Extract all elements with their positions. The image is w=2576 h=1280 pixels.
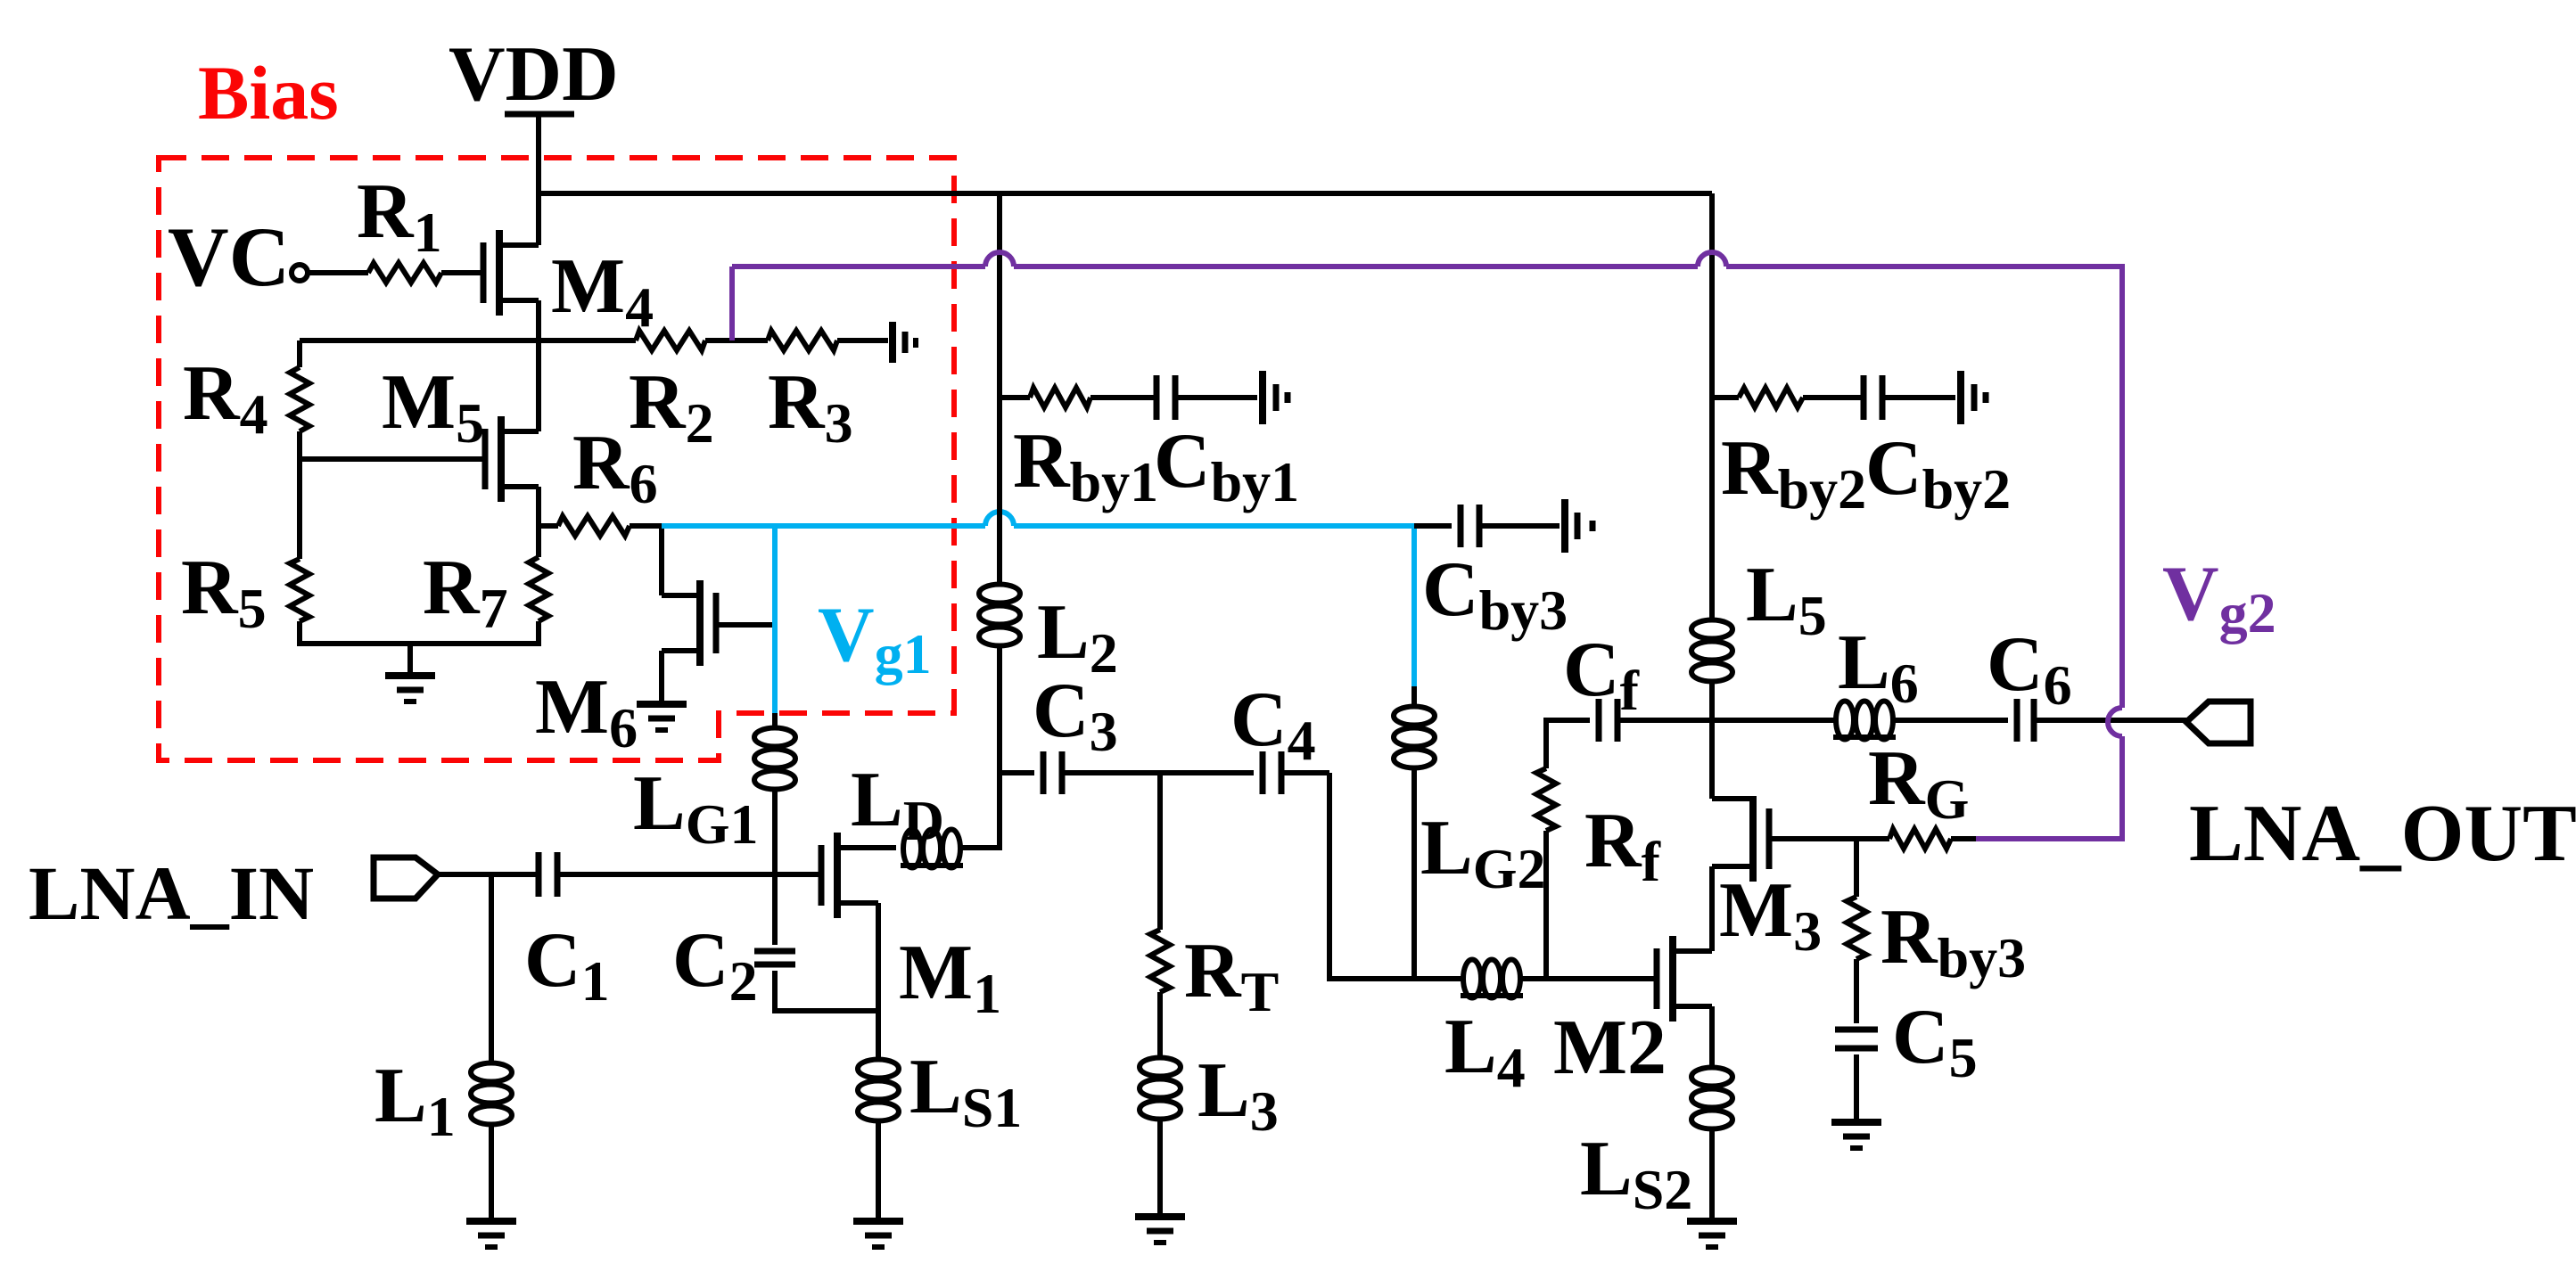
wire R7 top <box>536 526 541 557</box>
capacitor Cf <box>1599 699 1617 742</box>
label C2 <box>672 917 758 1013</box>
label Cf <box>1563 627 1640 722</box>
svg-text:Bias: Bias <box>198 50 339 135</box>
ground LS2 <box>1687 1221 1737 1247</box>
capacitor C5 <box>1835 1030 1878 1048</box>
resistor R4 <box>290 367 309 431</box>
ground bias <box>385 676 435 702</box>
wire LS2 to ground <box>1709 1129 1715 1219</box>
wire center column top <box>997 193 1002 583</box>
resistor R1 <box>368 263 441 283</box>
wire M5 drain up <box>536 341 541 431</box>
label L2 <box>1037 589 1118 685</box>
svg-text:M2: M2 <box>1553 1005 1667 1091</box>
label Rby3 <box>1881 894 2026 989</box>
capacitor C3 <box>1000 751 1160 794</box>
wire R5 column <box>297 459 302 559</box>
ground sideways Cby3 <box>1565 499 1593 553</box>
label LNA_OUT <box>2189 788 2576 878</box>
wire Cby3 to ground <box>1479 523 1560 529</box>
inductor L4 <box>1461 960 1523 998</box>
label L5 <box>1746 552 1827 647</box>
label LG1 <box>633 760 758 856</box>
VDD power symbol <box>505 114 574 193</box>
terminal LNA_IN <box>374 857 438 898</box>
label C1 <box>524 917 610 1013</box>
transistor M4 <box>483 230 539 316</box>
label C5 <box>1892 994 1978 1089</box>
label LG2 <box>1420 805 1545 900</box>
wire C6 to output terminal <box>2034 718 2186 723</box>
wire L5 to output node <box>1709 682 1715 720</box>
wire L2 to C3 node <box>997 646 1002 773</box>
ground LS1 <box>853 1221 903 1247</box>
wire L1 branch <box>489 874 494 1061</box>
label M1 <box>899 930 1001 1025</box>
resistor R2 <box>636 331 705 350</box>
inductor L3 <box>1140 1058 1181 1120</box>
label R3 <box>768 359 853 455</box>
ground C5 <box>1831 1122 1881 1148</box>
wire L6 to C6 <box>1893 718 2008 723</box>
wire L3 to ground <box>1157 1120 1163 1215</box>
wire RT to L3 <box>1157 992 1163 1055</box>
svg-text:LNA_IN: LNA_IN <box>29 850 314 936</box>
transistor M2 <box>1657 936 1712 1022</box>
net Vg2 purple <box>732 252 2122 839</box>
wire Rby1 lead <box>1000 395 1030 400</box>
label C3 <box>1033 668 1118 763</box>
resistor RG <box>1889 829 1951 849</box>
inductor LS2 <box>1691 1068 1732 1129</box>
wire M1 source to LS1 <box>876 903 881 1057</box>
label Bias <box>198 50 339 135</box>
wire R4 top <box>297 341 302 367</box>
wire L4 to M2 gate <box>1520 976 1657 981</box>
node VC terminal <box>292 265 308 281</box>
transistor M6 <box>662 580 716 702</box>
inductor LG1 <box>754 713 795 874</box>
wire LD to column <box>960 773 1000 848</box>
wire node row y382 <box>300 338 636 343</box>
capacitor C2 <box>754 874 878 1011</box>
label LNA_IN <box>29 850 314 936</box>
wire C4 corner down to L4 row <box>1329 773 1463 979</box>
resistor R3 <box>768 331 837 350</box>
label L3 <box>1197 1047 1279 1143</box>
wire M6 drain riser <box>662 526 700 595</box>
label R1 <box>357 168 442 264</box>
ground M6 <box>637 704 687 730</box>
resistor Rby3 <box>1847 897 1866 959</box>
bias box dashed outline <box>159 158 954 760</box>
label R2 <box>629 359 714 455</box>
wire right column top <box>1709 193 1715 619</box>
wire Cf to output node <box>1617 718 1836 723</box>
label M6 <box>535 664 638 759</box>
label M3 <box>1719 867 1822 963</box>
label R7 <box>423 545 508 640</box>
label LS2 <box>1580 1126 1692 1221</box>
label VDD <box>449 31 619 118</box>
capacitor Cby2 <box>1864 375 1882 420</box>
label M2 <box>1553 1005 1667 1091</box>
wire R1 to M4 gate <box>441 270 481 275</box>
svg-text:VDD: VDD <box>449 31 619 118</box>
inductor L5 <box>1691 620 1732 682</box>
terminal LNA_OUT <box>2186 702 2251 743</box>
inductor L2 <box>979 585 1020 646</box>
label L4 <box>1444 1004 1526 1099</box>
wire Rby2 lead <box>1712 395 1739 400</box>
wire Rby3 branch <box>1854 839 1859 897</box>
wire M4 drain to rail <box>536 114 541 245</box>
label Rby2 <box>1721 425 1866 521</box>
wire L1 to ground <box>489 1125 494 1219</box>
svg-text:VC: VC <box>168 209 290 304</box>
label Rf <box>1584 798 1661 893</box>
label RT <box>1184 928 1279 1023</box>
label LD <box>851 757 944 852</box>
net Vg1 cyan <box>662 512 1414 713</box>
wire R4 to M5 gate row <box>300 431 485 459</box>
label L1 <box>374 1053 456 1148</box>
wire M6 gate to Vg1 <box>716 622 775 628</box>
ground L3 <box>1135 1217 1185 1243</box>
label VC <box>168 209 290 304</box>
ground L1 <box>466 1221 516 1247</box>
resistor RT <box>1150 930 1170 992</box>
wire Rf to L4 row <box>1543 831 1549 979</box>
wire M3 gate to RG <box>1769 836 1889 841</box>
label L6 <box>1838 619 1919 715</box>
wire Rby3 to C5 <box>1854 959 1859 1023</box>
wire C5 to ground <box>1854 1054 1859 1120</box>
inductor L6 <box>1833 702 1896 740</box>
ground sideways after R3 <box>893 322 916 363</box>
label M4 <box>551 243 654 339</box>
capacitor C6 <box>2017 699 2034 742</box>
net Cby3 wire <box>1414 523 1452 529</box>
wire M2 drain to M3 source <box>1709 866 1715 951</box>
wire M5 source to R6 node <box>536 487 541 526</box>
wire RT branch <box>1157 773 1163 930</box>
label M5 <box>382 359 484 455</box>
transistor M1 <box>821 833 896 918</box>
wire VC to R1 <box>308 270 368 275</box>
resistor R7 <box>529 557 548 621</box>
label Cby2 <box>1865 425 2011 521</box>
resistor Rby1 <box>1030 388 1090 407</box>
wire R6 right lead <box>630 523 662 529</box>
capacitor Cby3 <box>1461 505 1479 547</box>
inductor LD <box>901 830 963 868</box>
label Vg2 <box>2162 551 2276 644</box>
capacitor C1 <box>539 852 557 897</box>
wire M3 drain to output node <box>1709 720 1715 799</box>
wire Rby1 to Cby1 <box>1090 395 1156 400</box>
capacitor C4 <box>1160 751 1329 794</box>
wire LS1 to ground <box>876 1121 881 1219</box>
wire bottom of R5 R7 <box>300 621 539 674</box>
label R4 <box>183 350 268 446</box>
ground sideways Cby2 <box>1961 371 1986 424</box>
wire RG tail <box>1951 836 1976 841</box>
resistor Rby2 <box>1739 388 1803 407</box>
capacitor Cby1 <box>1156 375 1175 420</box>
label C6 <box>1987 621 2072 717</box>
label Cby3 <box>1422 546 1568 642</box>
wire Cby1 to ground <box>1175 395 1257 400</box>
label RG <box>1868 735 1969 831</box>
svg-text:LNA_OUT: LNA_OUT <box>2189 788 2576 878</box>
wire Cf corner and lead <box>1546 720 1590 768</box>
label C4 <box>1230 677 1316 772</box>
label R6 <box>572 420 658 515</box>
label R5 <box>181 545 267 640</box>
inductor L1 <box>471 1063 512 1125</box>
wire R6 left lead <box>539 523 558 529</box>
resistor Rf <box>1536 768 1556 831</box>
wire C1 to M1 gate <box>557 872 821 877</box>
resistor R5 <box>290 559 309 621</box>
label Vg1 <box>818 592 932 685</box>
wire VDD rail <box>539 191 1712 196</box>
wire M4 source down <box>536 300 541 341</box>
label Rby1 <box>1013 418 1158 513</box>
label Cby1 <box>1154 418 1299 513</box>
resistor R6 <box>558 516 630 536</box>
wire input to C1 <box>438 872 539 877</box>
wire M2 source to LS2 <box>1709 1006 1715 1065</box>
ground sideways Cby1 <box>1263 371 1288 424</box>
transistor M5 <box>485 416 539 502</box>
wire R3 to ground <box>837 338 888 343</box>
inductor LS1 <box>858 1060 899 1121</box>
wire R2 to R3 <box>705 338 768 343</box>
transistor M3 <box>1712 796 1769 882</box>
wire Rby2 to Cby2 <box>1803 395 1864 400</box>
inductor LG2 <box>1394 686 1435 979</box>
label LS1 <box>909 1044 1022 1139</box>
wire Cby2 to ground <box>1882 395 1955 400</box>
